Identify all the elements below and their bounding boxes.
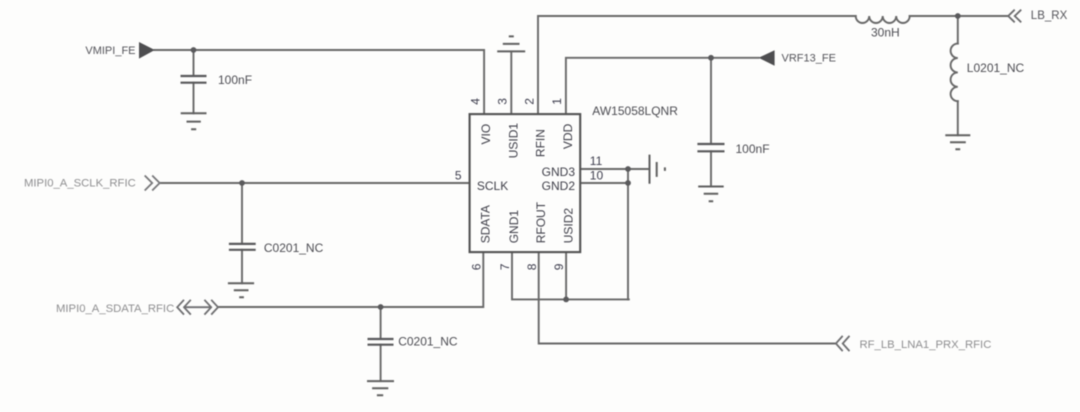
port VMIPI_FE input triangle <box>139 42 155 59</box>
right-pointing ground at pin 11 <box>650 155 665 184</box>
svg-text:4: 4 <box>468 98 482 105</box>
IC U1 AW15058LQNR body <box>470 114 581 252</box>
svg-text:9: 9 <box>552 263 566 270</box>
junction node pin 10 <box>625 180 631 186</box>
inverted ground above pin 3 <box>497 36 525 51</box>
wire vertical from pins 11/10 down <box>627 169 629 299</box>
wire pin 3 to inverted ground <box>510 51 512 114</box>
svg-text:8: 8 <box>525 263 539 270</box>
wire pin 10 <box>580 182 628 184</box>
wire cap C3 top link <box>241 183 243 244</box>
wire pin 7 down and right <box>512 252 629 299</box>
svg-text:C0201_NC: C0201_NC <box>264 241 324 255</box>
wire pin 2 up and right to inductor <box>538 16 856 114</box>
svg-text:GND1: GND1 <box>507 210 521 244</box>
wire pin 1 up and right to VRF13_FE <box>566 58 759 114</box>
wire cap C2 top link <box>710 58 712 144</box>
ground under C1 <box>181 113 207 129</box>
wire pin 8 down and right to RF port <box>539 252 836 343</box>
ground under L0201_NC <box>945 135 970 149</box>
wire cap C4 top link <box>380 307 382 339</box>
ground under C2 <box>698 187 724 202</box>
wire cap C1 bottom to ground <box>193 83 195 114</box>
wire L0201_NC to ground <box>957 101 959 135</box>
wire SDATA net to pin 6 <box>219 252 483 307</box>
svg-text:11: 11 <box>590 154 603 168</box>
svg-text:10: 10 <box>590 169 604 183</box>
capacitor C2 100nF plates <box>697 144 724 151</box>
svg-text:VMIPI_FE: VMIPI_FE <box>85 45 135 57</box>
junction node on VMIPI net <box>191 47 197 53</box>
svg-text:2: 2 <box>522 98 536 105</box>
wire cap C2 bottom to ground <box>710 151 712 186</box>
svg-text:VIO: VIO <box>479 124 493 145</box>
svg-text:RF_LB_LNA1_PRX_RFIC: RF_LB_LNA1_PRX_RFIC <box>860 339 992 351</box>
port MIPI0_A_SDATA_RFIC bidirectional symbol <box>177 300 218 315</box>
inductor L0201_NC coil <box>951 44 958 102</box>
svg-text:VRF13_FE: VRF13_FE <box>782 53 836 65</box>
port RF_LB_LNA1_PRX_RFIC chevrons <box>836 336 850 351</box>
capacitor C3 C0201_NC plates <box>229 244 256 250</box>
svg-text:RFOUT: RFOUT <box>534 201 548 243</box>
wire cap C3 bottom to ground <box>241 250 243 283</box>
svg-text:3: 3 <box>496 98 510 105</box>
capacitor C4 C0201_NC plates <box>368 339 394 345</box>
junction node on VDD net <box>708 55 714 61</box>
inductor L1 30nH <box>856 16 910 23</box>
svg-text:SCLK: SCLK <box>477 179 508 193</box>
svg-text:6: 6 <box>469 263 483 270</box>
junction node on SDATA net <box>378 304 384 310</box>
wire cap C4 bottom to ground <box>380 345 382 381</box>
svg-text:5: 5 <box>455 169 462 183</box>
wire SCLK net <box>160 182 470 184</box>
svg-text:MIPI0_A_SDATA_RFIC: MIPI0_A_SDATA_RFIC <box>56 303 174 315</box>
wire inductor to LB_RX port <box>910 15 1008 17</box>
ground under C4 <box>367 381 394 395</box>
svg-text:USID1: USID1 <box>507 123 521 159</box>
svg-text:C0201_NC: C0201_NC <box>398 334 458 348</box>
junction node pin 11 <box>625 166 631 172</box>
junction node on SCLK net <box>239 180 245 186</box>
svg-text:RFIN: RFIN <box>533 129 547 157</box>
port MIPI0_A_SCLK_RFIC chevrons <box>145 176 160 191</box>
wire VMIPI_FE net: triangle to pin 4 <box>155 50 485 114</box>
wire pin 9 down <box>565 252 567 299</box>
svg-text:VDD: VDD <box>561 123 575 149</box>
svg-text:7: 7 <box>498 263 512 270</box>
wire pin 11 to ground <box>580 168 649 170</box>
svg-text:AW15058LQNR: AW15058LQNR <box>592 104 678 118</box>
svg-text:USID2: USID2 <box>561 208 575 244</box>
svg-text:30nH: 30nH <box>871 26 900 40</box>
capacitor C1 100nF plates <box>181 76 207 83</box>
svg-text:L0201_NC: L0201_NC <box>967 61 1025 75</box>
junction node pin 9 <box>563 297 569 303</box>
port LB_RX chevrons <box>1008 10 1021 23</box>
svg-text:GND2: GND2 <box>542 179 576 193</box>
svg-text:LB_RX: LB_RX <box>1031 10 1068 22</box>
junction node on LB_RX net <box>955 13 961 19</box>
wire junction down to L0201_NC <box>957 16 959 44</box>
ground under C3 <box>228 283 254 297</box>
port VRF13_FE input triangle <box>759 50 775 66</box>
svg-text:100nF: 100nF <box>736 142 770 156</box>
svg-text:GND3: GND3 <box>542 165 576 179</box>
svg-text:100nF: 100nF <box>218 73 252 87</box>
svg-text:SDATA: SDATA <box>479 205 493 243</box>
svg-text:MIPI0_A_SCLK_RFIC: MIPI0_A_SCLK_RFIC <box>24 178 136 190</box>
wire cap C1 top link <box>193 50 195 76</box>
svg-text:1: 1 <box>550 98 564 105</box>
